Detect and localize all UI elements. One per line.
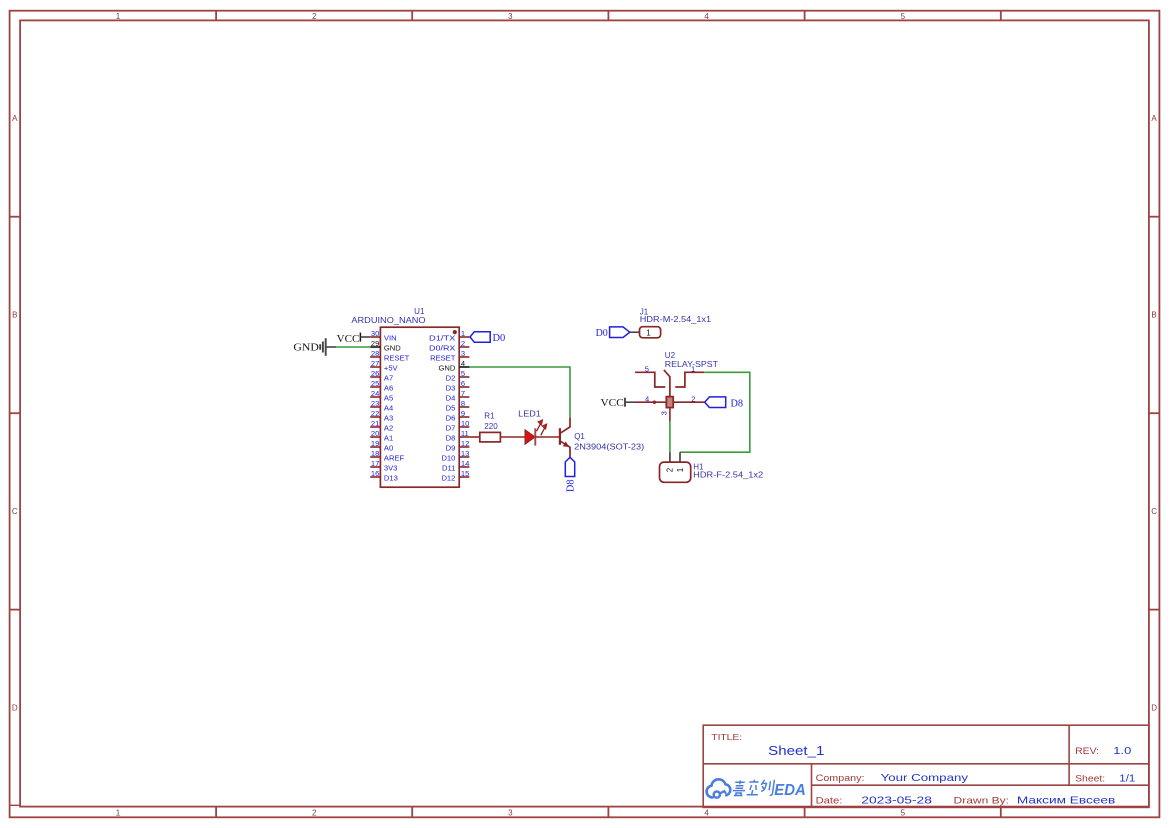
svg-text:VCC: VCC	[337, 333, 360, 345]
svg-text:16: 16	[371, 469, 379, 478]
svg-text:1.0: 1.0	[1113, 745, 1131, 757]
U1 pin 26 (A7) left	[370, 369, 393, 383]
svg-text:220: 220	[484, 422, 498, 431]
svg-text:B: B	[1151, 311, 1156, 320]
svg-text:D8: D8	[565, 479, 577, 492]
svg-text:GND: GND	[293, 342, 319, 354]
svg-text:U1: U1	[414, 307, 425, 316]
svg-text:4: 4	[704, 12, 709, 21]
U1 pin 23 (A4) left	[370, 399, 393, 413]
U1 pin 12 (D9) right	[446, 439, 470, 453]
U1 pin 4 (GND) right	[439, 359, 470, 373]
relay U2 coil	[666, 397, 673, 408]
svg-text:D1/TX: D1/TX	[429, 334, 455, 343]
svg-text:D10: D10	[441, 454, 455, 463]
LED1 emission arrow 1	[537, 420, 543, 431]
svg-text:5: 5	[461, 369, 465, 378]
svg-text:+5V: +5V	[384, 364, 399, 373]
svg-text:D9: D9	[446, 444, 456, 453]
svg-text:5: 5	[901, 809, 906, 818]
ground symbol GND (left)	[293, 338, 336, 356]
U1 pin 7 (D4) right	[446, 389, 470, 403]
svg-text:26: 26	[371, 369, 379, 378]
svg-text:1: 1	[691, 364, 695, 373]
LED1 emission arrow 2	[541, 424, 547, 435]
svg-text:A0: A0	[384, 444, 393, 453]
svg-text:A6: A6	[384, 384, 393, 393]
wire R1 to LED1 anode	[500, 436, 525, 438]
svg-text:D0: D0	[493, 332, 506, 344]
svg-text:5: 5	[645, 364, 649, 373]
svg-text:24: 24	[371, 389, 379, 398]
svg-text:17: 17	[371, 459, 379, 468]
wire U1.11 to R1	[469, 436, 479, 438]
svg-text:14: 14	[461, 459, 469, 468]
svg-text:C: C	[12, 507, 18, 516]
svg-text:RESET: RESET	[384, 354, 410, 363]
svg-text:19: 19	[371, 439, 379, 448]
svg-text:GND: GND	[384, 344, 401, 353]
U1 pin 2 (D0/RX) right	[429, 339, 469, 353]
U1 pin 24 (A5) left	[370, 389, 393, 403]
svg-text:LED1: LED1	[518, 409, 541, 418]
svg-text:A7: A7	[384, 374, 393, 383]
svg-text:D11: D11	[442, 464, 455, 473]
power flag VCC (left, to U1 pin 30)	[337, 333, 361, 345]
svg-text:22: 22	[371, 409, 379, 418]
svg-text:D3: D3	[446, 384, 456, 393]
svg-text:4: 4	[704, 809, 709, 818]
svg-text:11: 11	[461, 429, 469, 438]
U1 pin 21 (A2) left	[370, 419, 393, 433]
svg-text:18: 18	[371, 449, 379, 458]
svg-text:6: 6	[461, 379, 465, 388]
svg-text:EDA: EDA	[774, 782, 806, 799]
svg-text:D0/RX: D0/RX	[429, 344, 455, 353]
svg-text:HDR-M-2.54_1x1: HDR-M-2.54_1x1	[640, 315, 712, 324]
U1 pin 13 (D10) right	[441, 449, 469, 463]
svg-text:D4: D4	[446, 394, 456, 403]
wire relay pin 3 to H1 pin 2 (net)	[669, 421, 671, 452]
svg-text:D0: D0	[596, 327, 609, 339]
svg-text:A3: A3	[384, 414, 393, 423]
svg-text:GND: GND	[439, 364, 456, 373]
U1 pin 18 (AREF) left	[370, 449, 404, 463]
svg-text:3: 3	[508, 809, 513, 818]
svg-text:B: B	[12, 311, 17, 320]
svg-text:Company:: Company:	[816, 773, 865, 784]
svg-text:1: 1	[116, 809, 121, 818]
svg-text:D13: D13	[384, 474, 398, 483]
transistor Q1 base bar	[559, 428, 561, 445]
relay U2 pin 5 contact	[635, 364, 665, 387]
relay U2 pin 3	[660, 408, 670, 422]
svg-text:Your Company: Your Company	[881, 772, 969, 784]
svg-text:Drawn By:: Drawn By:	[954, 796, 1010, 807]
U1 pin 10 (D7) right	[446, 419, 470, 433]
U1 pin 11 (D8) right	[446, 429, 470, 443]
svg-text:HDR-F-2.54_1x2: HDR-F-2.54_1x2	[693, 471, 764, 480]
svg-text:D: D	[1151, 704, 1157, 713]
svg-text:Q1: Q1	[574, 432, 585, 441]
svg-text:D5: D5	[446, 404, 456, 413]
net flag D8 (below Q1 emitter)	[565, 457, 577, 492]
svg-text:A1: A1	[384, 434, 393, 443]
wire LED1 cathode to Q1 base	[535, 436, 559, 438]
svg-text:13: 13	[461, 449, 469, 458]
svg-text:D8: D8	[446, 434, 456, 443]
svg-text:20: 20	[371, 429, 379, 438]
Q1 emitter with arrow	[560, 441, 570, 457]
svg-text:Sheet_1: Sheet_1	[768, 744, 824, 758]
wire D0 flag to J1 pin 1	[630, 331, 640, 333]
svg-text:U2: U2	[665, 351, 676, 360]
U1 pin 17 (3V3) left	[370, 459, 397, 473]
power flag VCC (at relay pin 4)	[601, 397, 626, 409]
svg-text:12: 12	[461, 439, 469, 448]
svg-text:25: 25	[371, 379, 379, 388]
svg-text:AREF: AREF	[384, 454, 405, 463]
svg-text:ARDUINO_NANO: ARDUINO_NANO	[351, 316, 425, 325]
svg-text:3: 3	[508, 12, 513, 21]
H1 pin 2 stub	[669, 452, 671, 462]
U1 pin 6 (D3) right	[446, 379, 470, 393]
U1 pin 28 (RESET) left	[370, 349, 409, 363]
relay U2 pin 2	[673, 394, 705, 403]
frame column numbers bottom	[116, 809, 906, 818]
U1 pin 16 (D13) left	[370, 469, 398, 483]
svg-text:3V3: 3V3	[384, 464, 398, 473]
svg-text:Максим Евсеев: Максим Евсеев	[1017, 795, 1116, 807]
net flag D8 (at relay pin 2)	[705, 397, 744, 410]
LED1 diode triangle	[525, 430, 535, 444]
svg-text:2: 2	[461, 339, 465, 348]
resistor R1 body	[480, 432, 501, 442]
U1 pin 3 (RESET) right	[430, 349, 469, 363]
U1 pin 8 (D5) right	[446, 399, 470, 413]
svg-text:9: 9	[461, 409, 465, 418]
svg-text:R1: R1	[484, 412, 495, 421]
svg-text:27: 27	[371, 359, 379, 368]
svg-text:2: 2	[666, 467, 675, 472]
svg-text:23: 23	[371, 399, 379, 408]
svg-text:A2: A2	[384, 424, 393, 433]
svg-text:4: 4	[461, 359, 465, 368]
EDA logo cloud	[707, 779, 731, 797]
svg-text:A5: A5	[384, 394, 393, 403]
frame column numbers top	[116, 12, 906, 21]
wire relay pin 1 to H1 pin 1 (net)	[680, 372, 750, 452]
svg-text:D8: D8	[731, 397, 744, 409]
U1 pin 15 (D12) right	[441, 469, 469, 483]
svg-text:3: 3	[660, 411, 669, 415]
title block frame	[703, 725, 1149, 807]
U1 pin 30 (VIN) left	[370, 329, 396, 343]
svg-text:A4: A4	[384, 404, 393, 413]
svg-text:A: A	[12, 114, 18, 123]
svg-text:1/1: 1/1	[1119, 773, 1135, 785]
frame row letters left	[12, 114, 18, 712]
svg-text:RESET: RESET	[430, 354, 456, 363]
svg-text:D6: D6	[446, 414, 456, 423]
svg-text:1: 1	[116, 12, 121, 21]
svg-text:5: 5	[901, 12, 906, 21]
Q1 collector	[560, 417, 570, 433]
wire U1.4 (GND) to Q1 collector (net)	[469, 367, 570, 417]
svg-text:28: 28	[371, 349, 379, 358]
svg-text:VIN: VIN	[384, 334, 397, 343]
H1 pin 1 stub	[679, 452, 681, 462]
svg-text:D7: D7	[446, 424, 456, 433]
svg-text:1: 1	[461, 329, 465, 338]
U1 pin 27 (+5V) left	[370, 359, 398, 373]
svg-text:Date:: Date:	[816, 796, 843, 807]
relay U2 switch arm	[664, 370, 670, 397]
svg-text:2N3904(SOT-23): 2N3904(SOT-23)	[574, 442, 644, 451]
U1 pin 19 (A0) left	[370, 439, 393, 453]
svg-text:8: 8	[461, 399, 465, 408]
svg-text:7: 7	[461, 389, 465, 398]
svg-text:REV:: REV:	[1075, 746, 1099, 757]
net flag D0 (at J1)	[596, 327, 630, 339]
svg-text:2023-05-28: 2023-05-28	[861, 795, 932, 807]
svg-text:A: A	[1151, 114, 1157, 123]
svg-text:4: 4	[645, 395, 649, 404]
svg-text:2: 2	[312, 809, 317, 818]
U1 pin 5 (D2) right	[446, 369, 470, 383]
connector H1 body	[660, 462, 691, 482]
svg-text:TITLE:: TITLE:	[711, 732, 742, 742]
svg-text:D12: D12	[441, 474, 455, 483]
svg-text:15: 15	[461, 469, 469, 478]
svg-text:D: D	[12, 704, 18, 713]
wire GND to U1.29 (net GND)	[336, 346, 370, 348]
IC U1 ARDUINO_NANO body	[380, 327, 459, 487]
svg-text:30: 30	[371, 329, 379, 338]
svg-text:21: 21	[371, 419, 379, 428]
relay U2 pin 4	[636, 395, 667, 404]
U1 pin 1 (D1/TX) right	[429, 329, 469, 343]
U1 pin 14 (D11) right	[442, 459, 469, 473]
svg-text:VCC: VCC	[601, 397, 624, 409]
svg-text:29: 29	[371, 339, 379, 348]
connector J1 body	[640, 327, 661, 338]
svg-text:2: 2	[312, 12, 317, 21]
svg-text:C: C	[1151, 507, 1157, 516]
wire VCC to relay pin 4	[625, 401, 636, 403]
svg-text:Sheet:: Sheet:	[1075, 774, 1105, 785]
U1 pin 9 (D6) right	[446, 409, 470, 423]
U1 pin 22 (A3) left	[370, 409, 393, 423]
relay U2 pin 1 contact	[675, 364, 704, 387]
frame row letters right	[1151, 114, 1157, 712]
svg-text:1: 1	[646, 328, 651, 337]
LED1 cathode bar	[534, 428, 536, 445]
svg-text:3: 3	[461, 349, 465, 358]
U1 pin 20 (A1) left	[370, 429, 393, 443]
wire VCC to U1.30	[360, 336, 370, 338]
svg-text:2: 2	[691, 394, 695, 403]
net flag D0 (at U1 pin 1)	[470, 332, 506, 344]
U1 pin 25 (A6) left	[370, 379, 393, 393]
svg-text:D2: D2	[446, 374, 456, 383]
EDA logo text 嘉立创 (approximated strokes)	[732, 780, 774, 797]
U1 pin 29 (GND) left	[370, 339, 401, 353]
svg-text:10: 10	[461, 419, 469, 428]
svg-text:1: 1	[676, 467, 685, 472]
